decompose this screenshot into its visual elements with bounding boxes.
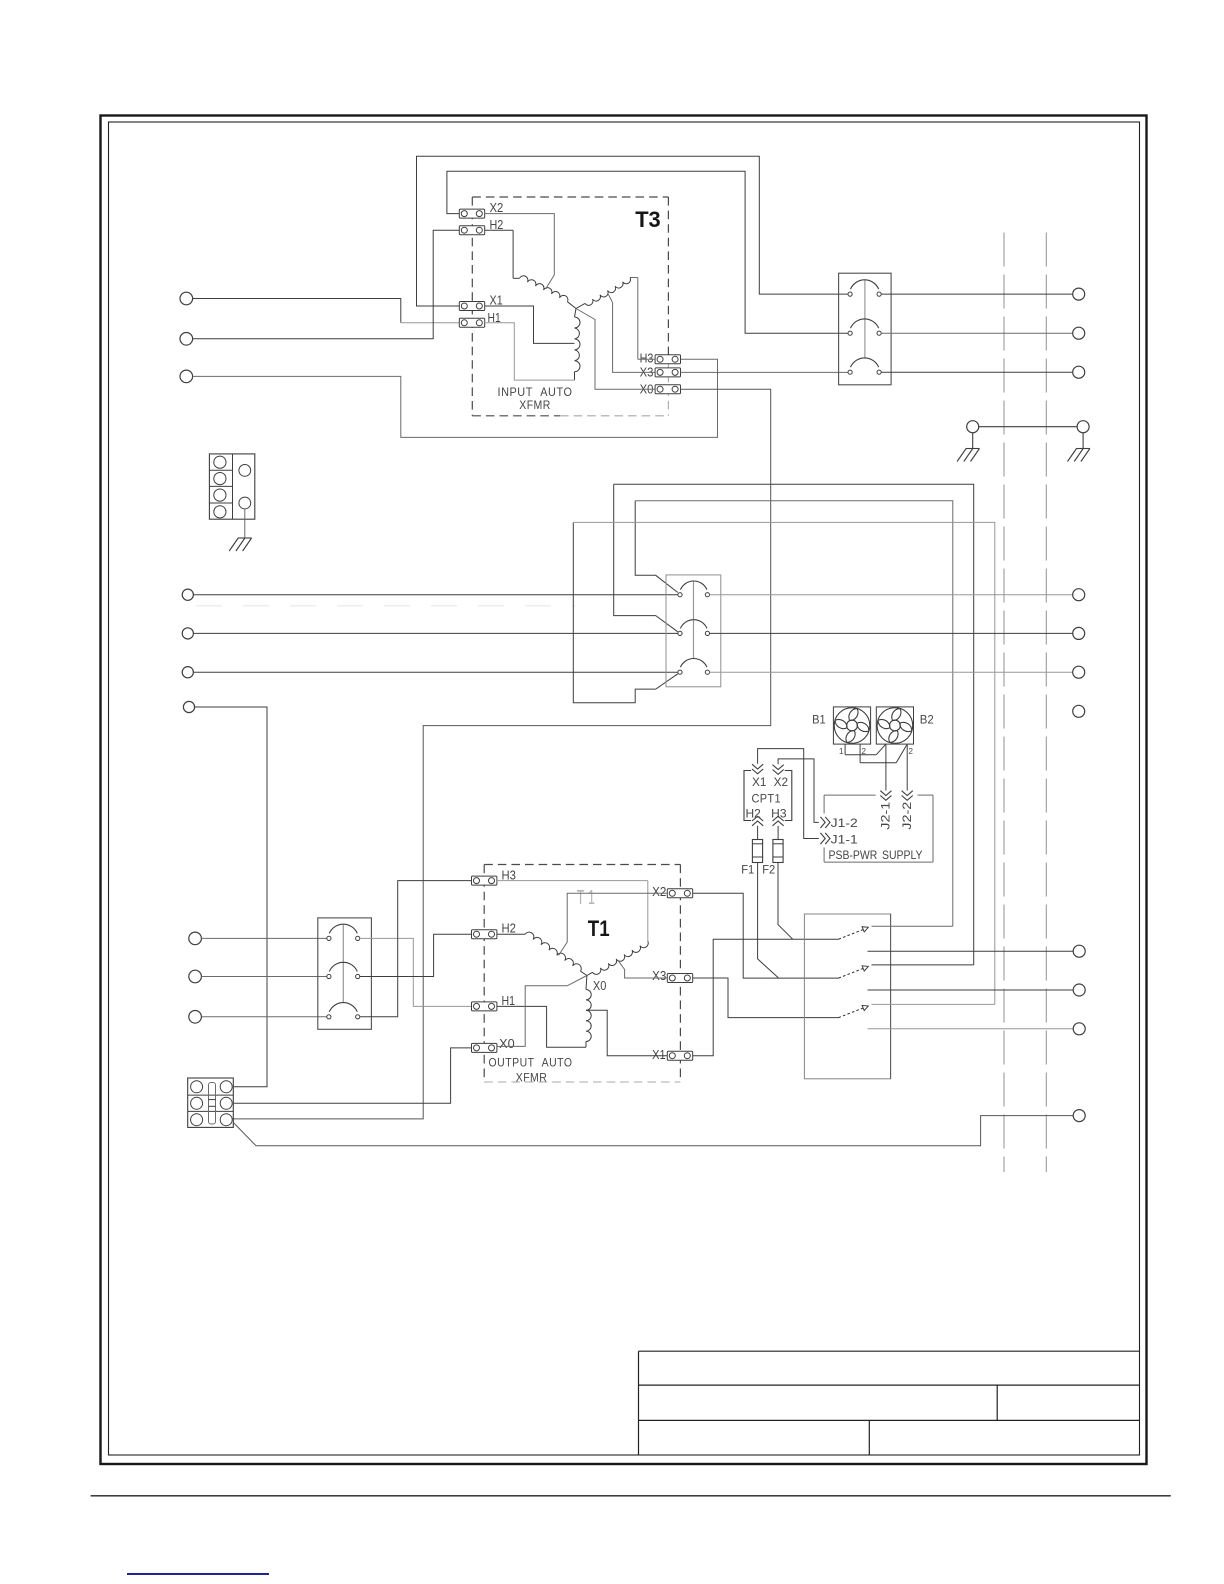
arrow CPT1 X2 [773, 770, 784, 775]
fuse F2 [773, 840, 783, 863]
lug H1 (T1) [472, 1002, 497, 1011]
mid terminal M1 [182, 589, 193, 600]
wire M1 to CB2 [193, 594, 678, 596]
svg-text:T 1: T 1 [577, 887, 595, 909]
output terminal O1 [189, 932, 202, 945]
svg-text:T1: T1 [588, 916, 610, 941]
mid terminal M2 [182, 628, 193, 639]
output terminal S1 [1073, 945, 1085, 957]
arrow CPT1 H3 [773, 816, 784, 821]
circuit breaker CB1 box [839, 273, 892, 385]
lug H3 (T1) [472, 876, 497, 885]
CPT1 bracket right [785, 771, 792, 821]
output terminal R1 [1073, 288, 1085, 300]
fan pin wires [844, 744, 846, 755]
lug X0 (T1) [472, 1043, 497, 1052]
svg-text:XFMR: XFMR [519, 398, 551, 412]
title block [639, 1350, 1140, 1352]
svg-text:H3: H3 [640, 352, 654, 366]
wire CB2-2 cross [614, 484, 974, 965]
T1 tap X2 [559, 893, 668, 955]
mid terminal R4 [1073, 705, 1085, 717]
output terminal S4 [1073, 1110, 1085, 1122]
wire CB1 pole1 out [881, 293, 1072, 295]
border frame outer [101, 116, 1147, 1465]
bond wire [979, 426, 1077, 428]
wire CB2-1 cross [635, 501, 953, 926]
CB1 pole 3 [848, 370, 852, 374]
svg-text:1: 1 [839, 747, 844, 756]
fuse F1 [752, 840, 762, 863]
bond stem A [972, 433, 974, 449]
wire CB3 pole1 to H1 [360, 938, 472, 1006]
wire CB3 pole3 to H3 [360, 881, 472, 1017]
wire B to J2-2 [906, 744, 908, 790]
lug H2 (T1) [472, 930, 497, 939]
T1 tap X3 [618, 960, 668, 978]
CB3 pole 1 [327, 936, 331, 940]
lug X2 (T1) [667, 889, 692, 898]
CB3 pole 2 [327, 974, 331, 978]
SW1 output wire [868, 950, 1074, 952]
wire O1 to CB3 [201, 937, 326, 939]
svg-text:F2: F2 [762, 862, 775, 876]
wire CPT1-X2 to J1-2 [778, 759, 819, 823]
svg-text:PSB-PWR SUPPLY: PSB-PWR SUPPLY [829, 849, 923, 862]
T3 tap H1 [485, 323, 575, 380]
svg-text:J1-1: J1-1 [831, 832, 858, 846]
T3 neutral X0 wire [576, 309, 655, 390]
wire F2 drop [778, 863, 793, 940]
T3 winding X0 branch [575, 309, 577, 318]
CB2 pole 1 [678, 593, 682, 597]
transfer switch box [804, 914, 890, 1079]
transformer T1 dashed enclosure [484, 864, 680, 866]
CB2 pole 3 [678, 670, 682, 674]
wire TB2 to S4 [233, 1116, 1073, 1146]
switch SW1 blade [839, 929, 865, 939]
input terminal L2 [180, 333, 193, 346]
output terminal R3 [1073, 366, 1085, 378]
terminal block TB2 [188, 1078, 234, 1127]
ground B [1076, 448, 1090, 450]
highlight dashes [196, 605, 575, 607]
svg-text:X2: X2 [490, 201, 504, 215]
T3 winding H3 branch [630, 277, 638, 279]
transformer T3 dashed enclosure [472, 196, 668, 198]
phantom line right [1045, 233, 1047, 1173]
wire CB2 pole3 feed [573, 522, 678, 702]
output terminal S3 [1073, 1023, 1085, 1035]
output terminal S2 [1073, 984, 1085, 996]
svg-text:B2: B2 [920, 713, 934, 727]
lug X1 (T1) [667, 1051, 692, 1060]
svg-text:T3: T3 [635, 207, 661, 232]
arrow J2-1 [880, 796, 891, 801]
switch SW3 blade [839, 1008, 865, 1018]
svg-text:X3: X3 [652, 969, 666, 983]
wire L1 to H1 [193, 299, 401, 323]
wire CB2 pole3 out [710, 671, 1073, 673]
svg-text:CPT1: CPT1 [751, 792, 781, 806]
bond terminal B [1077, 421, 1089, 433]
wire L3 to H3 loop [193, 359, 718, 437]
arrow J1-2 [825, 817, 830, 828]
wire X0 (T3) to TB2 [233, 389, 771, 1119]
CB1 pole 2 [848, 331, 852, 335]
arrow J1-1 [825, 833, 830, 844]
svg-text:J1-2: J1-2 [831, 816, 858, 830]
T1 winding H3 branch [497, 880, 648, 882]
lug X3 (T3) [655, 368, 680, 377]
lug X3 (T1) [667, 974, 692, 983]
bond terminal A [967, 421, 979, 433]
mid terminal M4 [183, 701, 194, 712]
wire X2 to CB1 pole 2 [447, 171, 848, 333]
wire F1 drop [758, 863, 779, 978]
wire X3 (T1) to SW3 [693, 978, 839, 1018]
ground A [966, 448, 980, 450]
T1 tap X1 [586, 1010, 667, 1055]
output terminal O2 [189, 970, 202, 983]
CB2 pole 2 [678, 631, 682, 635]
SW2 upper contact wire [872, 964, 974, 966]
T1 winding H2 branch [497, 933, 525, 935]
wire H2 to F1 [757, 826, 759, 840]
input terminal L1 [180, 292, 193, 305]
wire CB2 pole1 out [710, 594, 1073, 596]
SW2 output wire [868, 989, 1074, 991]
terminal block TB1 [209, 454, 254, 519]
circuit breaker CB2 box [666, 575, 721, 687]
border frame inner [109, 122, 1140, 1455]
T1 winding X0 branch [585, 976, 588, 990]
svg-text:B1: B1 [812, 713, 826, 727]
lug X0 (T3) [655, 385, 680, 394]
T3 winding H2 branch [485, 229, 513, 231]
switch SW2 blade [839, 968, 865, 978]
SW3 upper contact wire [872, 1003, 995, 1005]
circuit breaker CB3 box [318, 918, 372, 1029]
mid terminal R3 [1073, 666, 1085, 678]
bottom rule line [91, 1495, 1171, 1497]
wire CB1 pole3 out [881, 371, 1072, 373]
ground TB1 [238, 537, 252, 539]
CPT1 bracket left [744, 771, 751, 821]
footer link underline [127, 1573, 269, 1575]
wire M2 to CB2 [193, 632, 678, 634]
wire CB2 pole2 out [710, 632, 1073, 634]
arrow CPT1 H2 [752, 816, 763, 821]
wire M4 to TB2 [195, 707, 267, 1087]
arrow CPT1 X1 [752, 769, 763, 774]
output terminal R2 [1073, 327, 1085, 339]
wire M3 to CB2 [193, 671, 678, 673]
T1 neutral X0 wire [497, 976, 587, 1047]
lug X2 (T3) [459, 209, 484, 218]
wire CB2 pole2 feed [614, 484, 678, 632]
svg-text:X0: X0 [593, 979, 607, 993]
wire O2 to CB3 [201, 976, 326, 978]
wire CB2 pole1 feed [635, 501, 678, 593]
svg-text:INPUT AUTO: INPUT AUTO [498, 385, 573, 399]
wire H3 to F2 [777, 826, 779, 840]
fan B1 [833, 707, 870, 744]
svg-text:F1: F1 [741, 862, 754, 876]
svg-text:H2: H2 [502, 921, 516, 935]
lug H2 (T3) [459, 226, 484, 235]
wire X2 (T1) to SW2 [693, 893, 839, 978]
arrow J2-2 [902, 796, 913, 801]
lug X1 (T3) [459, 302, 484, 311]
T3 tap X2 [485, 214, 555, 289]
lug H3 (T3) [655, 355, 680, 364]
svg-text:J2-2: J2-2 [900, 801, 914, 829]
TB1 ground stem [244, 509, 246, 538]
CB2 tie bar [693, 582, 695, 660]
T1 tap H1 [497, 1006, 586, 1047]
mid terminal R2 [1073, 627, 1085, 639]
CB1 pole 1 [848, 292, 852, 296]
output terminal O3 [189, 1011, 202, 1024]
T3 tap X3 [608, 293, 655, 372]
SW3 output wire [868, 1028, 1074, 1030]
svg-text:J2-1: J2-1 [879, 801, 893, 829]
wire CPT1-X1 to J1-1 [758, 749, 819, 839]
bond stem B [1082, 433, 1084, 449]
wire CB1 pole2 out [881, 332, 1072, 334]
CB1 tie bar [864, 281, 866, 359]
SW1 upper contact wire [872, 925, 953, 927]
wire X1 to CB1 pole 1 [417, 156, 848, 306]
wire CB2-3 cross [573, 522, 995, 1004]
svg-text:X2: X2 [652, 885, 666, 899]
wire O3 to CB3 [201, 1016, 326, 1018]
svg-text:XFMR: XFMR [516, 1071, 548, 1085]
wire B to J2-1 [885, 744, 887, 790]
wire CB3 pole2 to H2 [360, 934, 472, 976]
mid terminal M3 [182, 667, 193, 678]
CB3 tie bar [342, 925, 344, 1003]
power supply PSB box [824, 794, 876, 796]
svg-text:X1 X2: X1 X2 [752, 775, 788, 789]
svg-text:OUTPUT AUTO: OUTPUT AUTO [489, 1056, 573, 1070]
svg-text:2: 2 [909, 747, 914, 756]
phantom line left [1003, 233, 1005, 1173]
CB3 pole 3 [327, 1015, 331, 1019]
lug H1 (T3) [459, 318, 484, 327]
wire X1 (T1) to SW1 [693, 939, 839, 1055]
input terminal L3 [180, 370, 193, 383]
wire L2 to H2 [193, 230, 460, 339]
T3 tap X1 [485, 306, 575, 343]
mid terminal R1 [1073, 589, 1085, 601]
wire X3 to CB1 pole 3 [681, 371, 848, 373]
svg-text:2: 2 [862, 747, 867, 756]
fan B2 [876, 707, 913, 744]
wire X0 (T1) to TB2 [234, 1048, 472, 1103]
svg-text:X0: X0 [499, 1037, 515, 1051]
